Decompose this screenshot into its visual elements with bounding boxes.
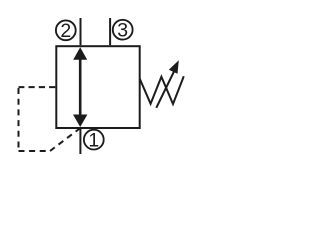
- wire port 1 line (bottom): [79, 128, 81, 154]
- adjustment arrow: [156, 60, 179, 108]
- flow path double arrow: [73, 47, 87, 127]
- pilot dashed line bottom segment: [19, 150, 51, 152]
- svg-text:1: 1: [88, 130, 99, 152]
- svg-text:2: 2: [60, 20, 71, 42]
- pilot dashed line horizontal segment: [19, 86, 56, 88]
- svg-text:3: 3: [117, 20, 128, 42]
- pilot dashed line diagonal segment: [50, 128, 80, 151]
- valve envelope box: [56, 46, 139, 128]
- port 2 label: [56, 20, 76, 42]
- port 1 label: [84, 130, 104, 152]
- port 3 label: [113, 20, 133, 42]
- wire port 2 line (top left): [80, 18, 82, 45]
- spring: [140, 76, 184, 104]
- pilot dashed line vertical segment: [18, 88, 20, 148]
- wire port 3 line (top right): [109, 18, 111, 45]
